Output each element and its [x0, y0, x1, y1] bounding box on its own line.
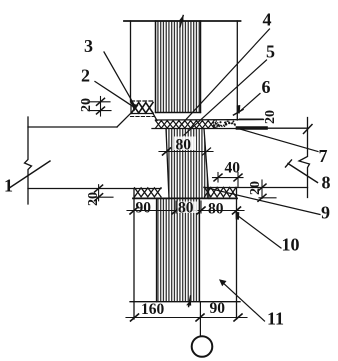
left floor slab: bottom edge [28, 188, 161, 190]
bottom wall: core left boundary [156, 199, 158, 302]
right dim 20 lower: dim line [261, 180, 263, 199]
leader for callout 5 [184, 60, 267, 135]
top wall panel: core bottom edge [156, 112, 201, 114]
top joint stipple fill [219, 121, 221, 123]
leader for callout 10 [238, 216, 282, 249]
lower-left dim 20: dim line [98, 185, 100, 201]
svg-text:80: 80 [178, 200, 194, 217]
break mark at top of wall [180, 16, 183, 28]
tick at right slab top corner [304, 125, 313, 134]
bottom wall: core right boundary [199, 199, 201, 302]
dim 40: dim line [213, 177, 244, 179]
upper-left dim 20: extension ticks [88, 101, 110, 103]
top wall panel: core right boundary [200, 21, 202, 113]
right dim 20 upper: slash tick [234, 110, 244, 116]
leader for callout 2 [95, 82, 133, 107]
bottom wall: bottom edge [130, 301, 240, 303]
leader for callout 11 with dot [221, 281, 265, 321]
right dim 20 lower: slash ticks [258, 184, 266, 191]
bottom dims 90/80/80: mid extension ticks [175, 201, 177, 213]
svg-text:20: 20 [86, 192, 101, 206]
upper-left dim 20: dim line [100, 97, 102, 117]
dim 40: slash ticks [214, 174, 222, 181]
centre axis line [199, 302, 201, 336]
lower joint: left caulking band [135, 188, 162, 197]
bottom dims 90/80/80: slash ticks [130, 207, 138, 214]
neck dim 80: slash ticks [163, 148, 171, 155]
wall neck: hatch fill [166, 129, 209, 199]
wall neck: right edge [204, 129, 209, 199]
bottom dims 90/80/80: dim line [127, 210, 244, 212]
svg-text:10: 10 [282, 235, 300, 255]
svg-text:80: 80 [176, 137, 192, 154]
svg-text:1: 1 [4, 176, 13, 196]
svg-text:9: 9 [321, 203, 330, 223]
bottom wall: hatched core [157, 199, 200, 302]
halo for bottom mid 80 [178, 202, 198, 214]
bottom wall: left face [133, 189, 135, 319]
dashed line under caulking block [131, 116, 155, 118]
right ledge line [239, 118, 263, 120]
right slab cut edge with break [299, 118, 310, 198]
slant from block to joint band [153, 114, 157, 121]
bottom wall: right face [236, 188, 238, 320]
svg-text:40: 40 [225, 160, 241, 177]
bottom dims 160/90: slash ticks [131, 314, 139, 321]
break mark at bottom of wall [189, 296, 191, 307]
leader for callout 3 [104, 52, 134, 105]
bottom wall: top edge [133, 197, 237, 199]
halo for neck 80 [174, 137, 196, 151]
thick seam (callout 7 target) [238, 126, 267, 130]
top wall panel: top edge line [124, 20, 241, 22]
svg-text:3: 3 [84, 36, 93, 56]
svg-text:20: 20 [263, 110, 278, 124]
caulking block (callout 2/3 target) [132, 103, 154, 114]
top wall panel: left face [130, 21, 132, 102]
svg-text:7: 7 [319, 146, 328, 166]
lower joint: right caulking band [205, 187, 237, 196]
top joint band bottom line [152, 128, 237, 130]
right slab bottom edge [204, 187, 308, 189]
svg-text:6: 6 [262, 77, 271, 97]
dim 40: left extension [217, 173, 219, 183]
right slab top edge [237, 127, 308, 129]
leader for callout 9 [204, 187, 320, 214]
left floor slab: cut edge with break [25, 117, 32, 204]
left floor slab: slanted rise to block [117, 113, 131, 127]
dim 40: right extension [237, 173, 239, 188]
svg-text:90: 90 [210, 300, 226, 317]
svg-text:2: 2 [81, 66, 90, 86]
top joint band top line [156, 119, 264, 122]
neck dim 80: dim line [159, 151, 213, 153]
leader for callout 4 [180, 29, 270, 126]
svg-text:90: 90 [136, 200, 152, 217]
top wall panel: right face [236, 21, 238, 120]
top joint crosshatch fill [156, 121, 215, 129]
svg-text:80: 80 [208, 201, 224, 218]
leader for callout 1 [10, 161, 50, 188]
svg-text:20: 20 [79, 98, 94, 112]
svg-text:11: 11 [267, 309, 284, 329]
svg-text:5: 5 [266, 42, 275, 62]
leader 11 start dot [219, 279, 227, 286]
leader for callout 7 [238, 129, 318, 152]
upper-left dim 20: slash ticks [97, 98, 105, 105]
top wall panel: hatched core [156, 21, 201, 113]
left floor slab: top edge [28, 126, 117, 128]
leader for callout 8 [288, 164, 318, 183]
svg-text:160: 160 [141, 301, 165, 318]
lower-left dim 20: slash ticks [95, 185, 103, 192]
leader for callout 6 [239, 94, 261, 113]
svg-text:20: 20 [248, 181, 263, 195]
bottom dims 160/90: dim line [126, 317, 247, 319]
lower-left dim 20: extension tick [94, 196, 113, 198]
svg-text:4: 4 [263, 10, 272, 30]
wall neck: left edge [166, 129, 169, 199]
svg-text:8: 8 [322, 173, 331, 193]
right dim 20 lower: extension [259, 197, 276, 199]
axis bubble circle [192, 336, 213, 357]
top wall panel: core left boundary [155, 21, 157, 113]
